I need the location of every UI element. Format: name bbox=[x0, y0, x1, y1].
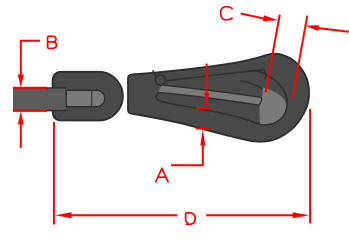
shaft bottom edge bbox=[13, 110, 66, 112]
gate tip end bbox=[264, 70, 266, 80]
A up arrow bbox=[200, 129, 205, 146]
B leader elbow bbox=[21, 41, 40, 75]
D left arrow bbox=[55, 212, 72, 218]
label D bbox=[186, 213, 196, 225]
A down arrow bbox=[204, 93, 209, 108]
dimension D bbox=[54, 109, 310, 225]
A leader bbox=[171, 145, 203, 165]
D left extension line bbox=[53, 122, 55, 225]
A top tick bbox=[197, 107, 211, 109]
label B bbox=[48, 36, 57, 48]
D line left segment bbox=[70, 214, 177, 216]
gate upper edge bbox=[166, 70, 265, 81]
label C bbox=[221, 7, 233, 20]
label A bbox=[155, 168, 168, 182]
B up arrow tail bbox=[20, 124, 22, 148]
throat top edge (beta) bbox=[161, 93, 259, 106]
C leader bbox=[241, 14, 266, 20]
B bottom extension tick bbox=[13, 110, 47, 112]
C right arrow bbox=[305, 25, 319, 31]
C left arrow bbox=[263, 15, 278, 21]
dimension C bbox=[241, 14, 349, 98]
gate pivot notch bbox=[153, 70, 158, 77]
B up arrow bbox=[18, 111, 24, 124]
arm top edge bbox=[162, 102, 261, 125]
throat left U-bend bbox=[156, 93, 161, 102]
gate lower edge (alpha) bbox=[164, 85, 262, 105]
bight opening crescent bbox=[259, 88, 286, 125]
C right extension line bbox=[293, 16, 308, 98]
shaft top edge bbox=[13, 87, 66, 89]
C left extension line bbox=[266, 15, 280, 93]
eye housing bbox=[53, 72, 123, 121]
A down arrow line bbox=[206, 64, 208, 95]
A bottom tick bbox=[196, 128, 210, 130]
gate tip seam bbox=[240, 81, 262, 89]
gap sliver between gate and body bbox=[159, 85, 262, 105]
B top extension tick bbox=[13, 87, 47, 89]
C right tail bbox=[319, 28, 349, 32]
pivot rivet Q bbox=[155, 75, 165, 85]
dimension B bbox=[13, 41, 47, 148]
dimension A bbox=[171, 64, 211, 166]
hook body silhouette bbox=[128, 54, 309, 142]
eye slot bbox=[66, 90, 104, 106]
slot divider / shaft ball bbox=[91, 90, 93, 106]
D right extension line bbox=[309, 109, 311, 223]
D right arrow bbox=[293, 212, 310, 218]
bight inner arc bbox=[243, 71, 287, 125]
D line right segment bbox=[206, 214, 294, 216]
swivel shaft bbox=[13, 88, 67, 110]
B down arrow bbox=[18, 75, 24, 88]
